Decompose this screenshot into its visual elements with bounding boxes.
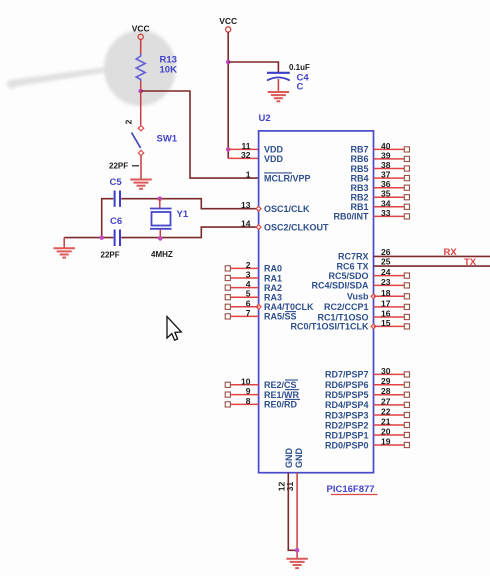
wire Y1 top stem — [159, 199, 161, 208]
svg-text:RA1: RA1 — [264, 273, 282, 283]
wire VCC2 vertical to VDD pins — [227, 32, 229, 158]
svg-text:25: 25 — [381, 257, 391, 267]
pin name RC7RX — [338, 252, 369, 262]
svg-text:RE0/RD: RE0/RD — [264, 400, 298, 410]
svg-text:24: 24 — [381, 267, 391, 277]
pin name RA2 — [264, 283, 282, 293]
pin 24 stub — [374, 267, 410, 278]
label 22PF (stray) — [109, 162, 139, 171]
wire junction to SW1 — [140, 91, 142, 125]
pin 22 stub — [374, 407, 410, 418]
node junction Y1 bottom — [158, 236, 163, 241]
svg-text:RA0: RA0 — [264, 264, 282, 274]
node junction VDD pin11 — [226, 147, 231, 152]
ground below SW1 — [130, 180, 152, 189]
capacitor C5 — [115, 191, 120, 207]
pin 37 stub — [374, 170, 410, 181]
svg-text:3: 3 — [246, 270, 251, 280]
svg-text:21: 21 — [381, 417, 391, 427]
switch SW1 — [132, 126, 144, 156]
svg-text:20: 20 — [381, 427, 391, 437]
svg-text:38: 38 — [381, 160, 391, 170]
pin edge diamond RA4 (6) — [256, 304, 261, 309]
pin name RD2/PSP2 — [325, 420, 369, 430]
pin name RA3 — [264, 293, 282, 303]
svg-text:9: 9 — [246, 386, 251, 396]
pin 12 number — [277, 482, 287, 492]
node junction VCC/C4 — [226, 60, 231, 65]
pin 36 stub — [374, 179, 410, 190]
pin name RD3/PSP3 — [325, 410, 369, 420]
svg-text:15: 15 — [381, 318, 391, 328]
wire R13 to junction — [140, 81, 142, 91]
wire OSC1 net (C5 row) to pin 13 — [102, 199, 114, 238]
svg-text:40: 40 — [381, 141, 391, 151]
svg-text:5: 5 — [246, 289, 251, 299]
pin name RD6/PSP6 — [325, 380, 369, 390]
pin 19 stub — [374, 437, 410, 448]
svg-text:26: 26 — [381, 247, 391, 257]
svg-text:23: 23 — [381, 277, 391, 287]
pin edge diamond Vusb (18) — [371, 294, 376, 299]
pin 33 stub — [374, 208, 410, 219]
pin 28 stub — [374, 386, 410, 397]
svg-text:6: 6 — [246, 298, 251, 308]
ground below IC — [286, 559, 308, 568]
svg-text:C: C — [297, 82, 304, 93]
pin name Vusb — [347, 292, 369, 302]
pin name RC1/T1OSO — [317, 312, 368, 322]
wire OSC2 net (C6 row) to pin 14 — [64, 237, 113, 239]
pin name RC0/T1OSI/T1CLK — [290, 322, 369, 332]
svg-text:17: 17 — [381, 298, 391, 308]
svg-text:VDD: VDD — [264, 145, 284, 155]
pin 6 stub — [225, 298, 258, 309]
svg-text:RX: RX — [444, 247, 458, 258]
capacitor C6 — [115, 230, 120, 247]
pin name VDD — [264, 145, 284, 155]
pin name RA5/SS — [264, 312, 297, 322]
svg-text:U2: U2 — [259, 113, 271, 124]
label 0.1uF C4 C — [289, 63, 310, 93]
pin 34 stub — [374, 198, 410, 209]
svg-text:VDD: VDD — [264, 154, 284, 164]
power flag VCC (R13 net) — [132, 24, 150, 40]
wire GND pin 31 — [296, 473, 298, 558]
pin 9 stub — [225, 386, 258, 397]
svg-text:33: 33 — [381, 208, 391, 218]
svg-text:RD7/PSP7: RD7/PSP7 — [325, 370, 369, 380]
svg-text:Y1: Y1 — [177, 209, 189, 220]
wire SW1 to ground — [140, 156, 142, 179]
pin name RE0/RD — [264, 400, 298, 410]
svg-text:22: 22 — [381, 407, 391, 417]
pin name RB5 — [350, 164, 368, 174]
svg-text:19: 19 — [381, 437, 391, 447]
svg-text:29: 29 — [381, 376, 391, 386]
svg-text:2: 2 — [246, 260, 251, 270]
svg-text:22PF: 22PF — [101, 251, 120, 260]
svg-text:RA5/SS: RA5/SS — [264, 312, 297, 322]
svg-text:32: 32 — [241, 150, 251, 160]
crystal Y1 — [150, 209, 172, 229]
power flag VCC (VDD net) — [219, 16, 237, 32]
pin name RD4/PSP4 — [325, 400, 369, 410]
svg-text:27: 27 — [381, 396, 391, 406]
svg-text:RB0/INT: RB0/INT — [333, 212, 369, 222]
svg-text:RE1/WR: RE1/WR — [264, 390, 300, 400]
pin name RE1/WR — [264, 390, 300, 400]
pin name RB4 — [350, 173, 368, 183]
pin 18 stub — [374, 288, 410, 299]
svg-text:RC5/SDO: RC5/SDO — [328, 271, 368, 281]
pin 16 stub — [374, 309, 410, 320]
pin 23 stub — [374, 277, 410, 288]
cursor arrow (decorative) — [167, 317, 181, 341]
svg-text:35: 35 — [381, 189, 391, 199]
pin edge diamond OSC2 (14) — [256, 225, 261, 230]
pin 26 wire RC7/RX — [374, 247, 490, 257]
node junction R13/SW1/MCLR — [138, 89, 143, 94]
pin 3 stub — [225, 270, 258, 281]
pin name RB7 — [350, 145, 368, 155]
svg-text:RB2: RB2 — [350, 193, 368, 203]
svg-text:4MHZ: 4MHZ — [151, 250, 173, 259]
pin 21 stub — [374, 417, 410, 428]
svg-text:8: 8 — [246, 396, 251, 406]
svg-text:RC0/T1OSI/T1CLK: RC0/T1OSI/T1CLK — [290, 322, 369, 332]
pin name RA1 — [264, 273, 282, 283]
svg-text:RC4/SDI/SDA: RC4/SDI/SDA — [311, 281, 369, 291]
pin 31 number — [285, 482, 295, 492]
svg-text:13: 13 — [241, 200, 251, 210]
label R13 10K — [160, 55, 178, 76]
svg-text:RA4/T0CLK: RA4/T0CLK — [264, 302, 314, 312]
pin name RD1/PSP1 — [325, 430, 369, 440]
wire GND pin 12 — [288, 473, 297, 551]
pin name RA4/T0CLK — [264, 302, 314, 312]
svg-text:RB3: RB3 — [350, 183, 368, 193]
svg-text:14: 14 — [241, 219, 251, 229]
pin 7 stub — [225, 308, 258, 319]
node junction C5/C6 left — [99, 235, 104, 240]
svg-text:Vusb: Vusb — [347, 292, 369, 302]
svg-text:RB7: RB7 — [350, 145, 368, 155]
svg-text:22PF: 22PF — [109, 162, 128, 171]
svg-text:RB4: RB4 — [350, 173, 368, 183]
svg-text:RE2/CS: RE2/CS — [264, 380, 297, 390]
resistor R13 — [136, 54, 145, 82]
svg-text:RA3: RA3 — [264, 293, 282, 303]
pin 17 stub — [374, 298, 410, 309]
svg-text:C5: C5 — [110, 177, 123, 188]
svg-text:RC2/CCP1: RC2/CCP1 — [324, 302, 369, 312]
svg-text:10: 10 — [241, 376, 251, 386]
svg-text:30: 30 — [381, 366, 391, 376]
pin 40 stub — [374, 141, 410, 152]
pin 2 stub — [225, 260, 258, 271]
pin name RE2/CS — [264, 380, 299, 390]
pin edge diamond RC0 (15) — [371, 324, 376, 329]
pin 20 stub — [374, 427, 410, 438]
svg-text:VCC: VCC — [219, 16, 237, 26]
pin name RB0/INT — [333, 212, 369, 222]
svg-text:SW1: SW1 — [157, 134, 178, 145]
wire VCC to C4 — [228, 62, 278, 72]
svg-text:RD0/PSP0: RD0/PSP0 — [325, 440, 369, 450]
wire to VDD pin 11 — [228, 148, 258, 150]
pin name OSC2/CLKOUT — [264, 222, 329, 232]
svg-text:36: 36 — [381, 179, 391, 189]
switch SW1 pin 2 number — [123, 119, 133, 124]
wire MCLR net to pin 1 — [141, 91, 259, 178]
pin name VDD — [264, 154, 284, 164]
svg-text:RD5/PSP5: RD5/PSP5 — [325, 390, 369, 400]
pin 25 wire RC6/TX — [374, 257, 490, 267]
svg-text:2: 2 — [123, 119, 133, 124]
svg-text:31: 31 — [285, 482, 295, 492]
svg-text:39: 39 — [381, 150, 391, 160]
svg-text:RD1/PSP1: RD1/PSP1 — [325, 430, 369, 440]
pin 39 stub — [374, 150, 410, 161]
wire VCC1 to R13 top — [140, 40, 142, 55]
capacitor C4 — [267, 73, 290, 92]
svg-text:4: 4 — [246, 279, 251, 289]
pin name OSC1/CLK — [264, 204, 310, 214]
pin name RB3 — [350, 183, 368, 193]
svg-text:PIC16F877: PIC16F877 — [327, 484, 375, 495]
pin 4 stub — [225, 279, 258, 290]
pin name RD5/PSP5 — [325, 390, 369, 400]
svg-text:VCC: VCC — [132, 24, 150, 34]
svg-text:34: 34 — [381, 198, 391, 208]
ground left of C6 — [53, 248, 74, 257]
node junction GND — [295, 548, 300, 553]
svg-text:18: 18 — [381, 288, 391, 298]
pin 38 stub — [374, 160, 410, 171]
svg-text:RD2/PSP2: RD2/PSP2 — [325, 420, 369, 430]
svg-text:RB5: RB5 — [350, 164, 368, 174]
pin name RB6 — [350, 154, 368, 164]
svg-text:RD3/PSP3: RD3/PSP3 — [325, 410, 369, 420]
svg-text:OSC1/CLK: OSC1/CLK — [264, 204, 310, 214]
pin name RB2 — [350, 193, 368, 203]
pin 15 stub — [374, 318, 410, 329]
pin 10 stub — [225, 376, 258, 387]
pin name GND (pin 12) — [284, 448, 294, 469]
wire to left ground — [63, 238, 65, 248]
svg-text:GND: GND — [294, 448, 304, 469]
pin name RA0 — [264, 264, 282, 274]
pin name GND (pin 31) — [294, 448, 304, 469]
pin 5 stub — [225, 289, 258, 300]
svg-text:RB1: RB1 — [350, 202, 368, 212]
svg-text:37: 37 — [381, 170, 391, 180]
svg-text:RD6/PSP6: RD6/PSP6 — [325, 380, 369, 390]
pin 27 stub — [374, 396, 410, 407]
pin 29 stub — [374, 376, 410, 387]
svg-text:7: 7 — [246, 308, 251, 318]
svg-text:1: 1 — [246, 170, 251, 180]
pin name RD0/PSP0 — [325, 440, 369, 450]
svg-text:0.1uF: 0.1uF — [289, 63, 310, 72]
pin name RD7/PSP7 — [325, 370, 369, 380]
node junction Y1 top — [158, 196, 163, 201]
svg-text:RC7RX: RC7RX — [338, 252, 369, 262]
pin name RC4/SDI/SDA — [311, 281, 369, 291]
svg-text:RA2: RA2 — [264, 283, 282, 293]
pin name RC2/CCP1 — [324, 302, 369, 312]
op IC U2 PIC16F877 body — [259, 131, 374, 473]
pin 8 stub — [225, 396, 258, 407]
svg-text:TX: TX — [464, 257, 477, 268]
svg-text:C6: C6 — [110, 216, 122, 227]
label PIC16F877 — [327, 484, 378, 495]
svg-text:28: 28 — [381, 386, 391, 396]
svg-text:10K: 10K — [160, 65, 178, 76]
ground below C4 — [268, 92, 290, 101]
svg-text:GND: GND — [284, 448, 294, 469]
svg-text:MCLR/VPP: MCLR/VPP — [264, 173, 311, 183]
pin 35 stub — [374, 189, 410, 200]
pin name MCLR/VPP — [264, 173, 311, 184]
pin name RB1 — [350, 202, 368, 212]
wire to VDD pin 32 — [228, 157, 258, 159]
svg-text:OSC2/CLKOUT: OSC2/CLKOUT — [264, 222, 329, 232]
pin name RC6 TX — [336, 261, 368, 271]
svg-text:RD4/PSP4: RD4/PSP4 — [325, 400, 369, 410]
svg-text:RB6: RB6 — [350, 154, 368, 164]
pin name RC5/SDO — [328, 271, 368, 281]
wire Y1 bottom stem — [159, 229, 161, 238]
pin edge diamond OSC1 (13) — [256, 206, 261, 211]
pin 30 stub — [374, 366, 410, 377]
svg-text:RC6 TX: RC6 TX — [336, 261, 368, 271]
